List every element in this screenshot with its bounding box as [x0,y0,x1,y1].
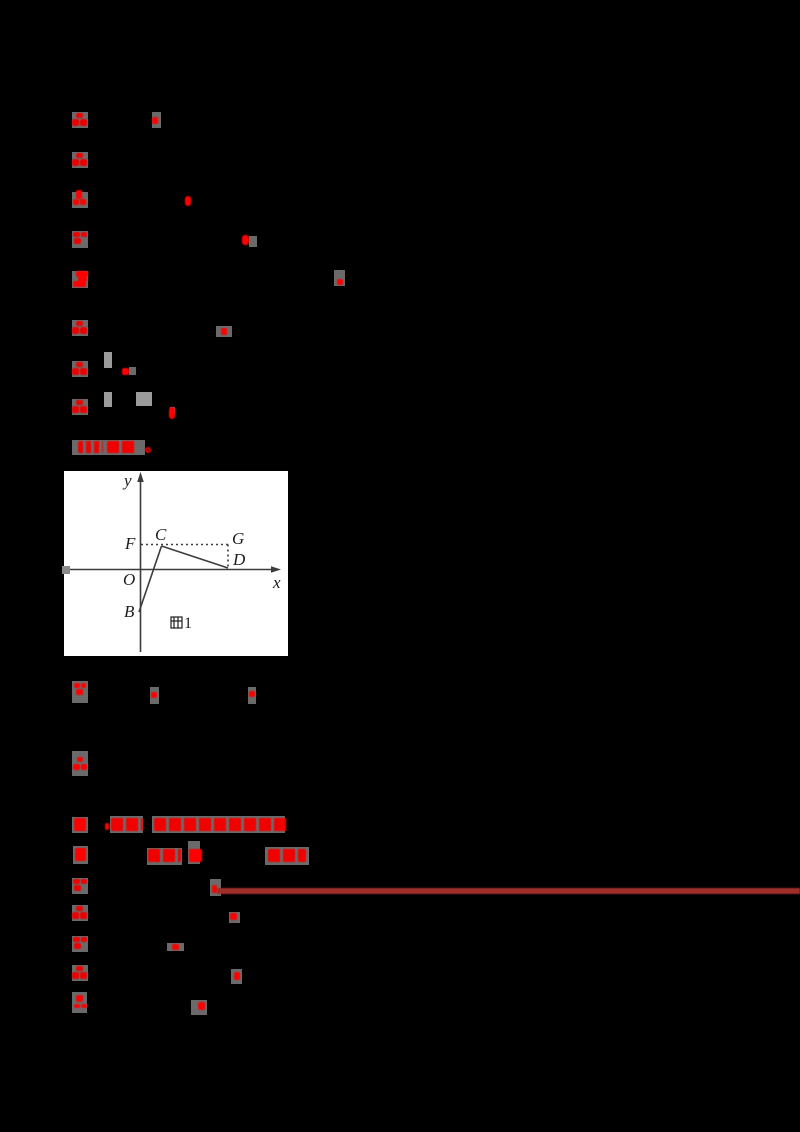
row 8 [72,399,88,415]
row 9 : (1) rutu1 [72,440,145,455]
gray handle on left edge of figure [62,566,70,574]
row 7 [72,361,88,377]
svg-text:1: 1 [184,615,192,632]
svg-text:y: y [122,471,132,490]
svg-text:C: C [155,525,167,544]
row 5 [72,271,88,288]
svg-text:F: F [124,534,136,553]
row 19 [72,992,87,1013]
svg-text:x: x [272,573,281,592]
svg-text:G: G [232,529,244,548]
svg-text:D: D [232,550,246,569]
row 12 [72,751,88,776]
row 11 [72,681,88,703]
svg-text:O: O [123,570,135,589]
row 3 [72,192,88,208]
row 14 [73,846,88,864]
row 1 [72,112,88,128]
row 16 [72,905,88,921]
svg-text:B: B [124,602,135,621]
row 2 [72,152,88,168]
row 18 [72,965,88,981]
row 17 [72,936,88,952]
row 13 [72,817,88,833]
row 6 [72,320,88,336]
row 15 [72,878,88,894]
row 10: white figure [64,471,288,656]
row 4 [72,231,88,248]
